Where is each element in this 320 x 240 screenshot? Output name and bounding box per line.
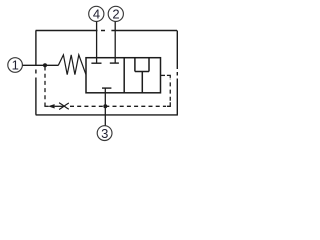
pilot dashed port3 stem to right corner: [105, 105, 166, 107]
port 2 circle: [108, 6, 123, 21]
wire port1 to spring: [23, 64, 59, 66]
arrowhead: [48, 104, 55, 108]
pilot dashed vertical from junction A: [44, 67, 46, 107]
port 3 stem: [104, 88, 106, 125]
pilot dashed vertical right: [169, 79, 171, 101]
pilot corner bottom-right: [167, 102, 170, 106]
wire arrow to X: [55, 105, 66, 107]
right position U passage: [135, 58, 149, 72]
port 3 blocked T bar: [102, 87, 111, 89]
enclosure top edge (phantom): [36, 30, 177, 32]
svg-text:3: 3: [101, 126, 108, 141]
valve divider: [123, 58, 125, 93]
port 2 stem: [114, 22, 116, 63]
pilot corner top-right: [167, 75, 170, 78]
enclosure left edge (phantom): [35, 31, 37, 115]
enclosure bottom edge: [36, 114, 178, 116]
enclosure right edge (phantom): [176, 31, 178, 115]
svg-text:4: 4: [93, 7, 100, 22]
junction dot A: [43, 63, 47, 67]
port 4 circle: [89, 6, 104, 21]
pilot stub solid: [161, 74, 166, 76]
valve body outline: [86, 58, 161, 93]
svg-text:2: 2: [112, 7, 119, 22]
spring: [58, 55, 86, 75]
pilot dashed X to port3 stem: [70, 105, 104, 107]
svg-text:1: 1: [12, 58, 19, 73]
junction dot B: [103, 104, 107, 108]
port 4 stem: [96, 22, 98, 64]
X blocked symbol: [59, 103, 69, 110]
right position center stem: [141, 72, 143, 93]
port 3 circle: [97, 126, 112, 141]
port 4 blocked T bar: [91, 62, 101, 64]
port 1 circle: [8, 58, 23, 73]
pilot corner to arrow: [44, 105, 48, 107]
port 2 blocked T bar: [110, 62, 119, 64]
